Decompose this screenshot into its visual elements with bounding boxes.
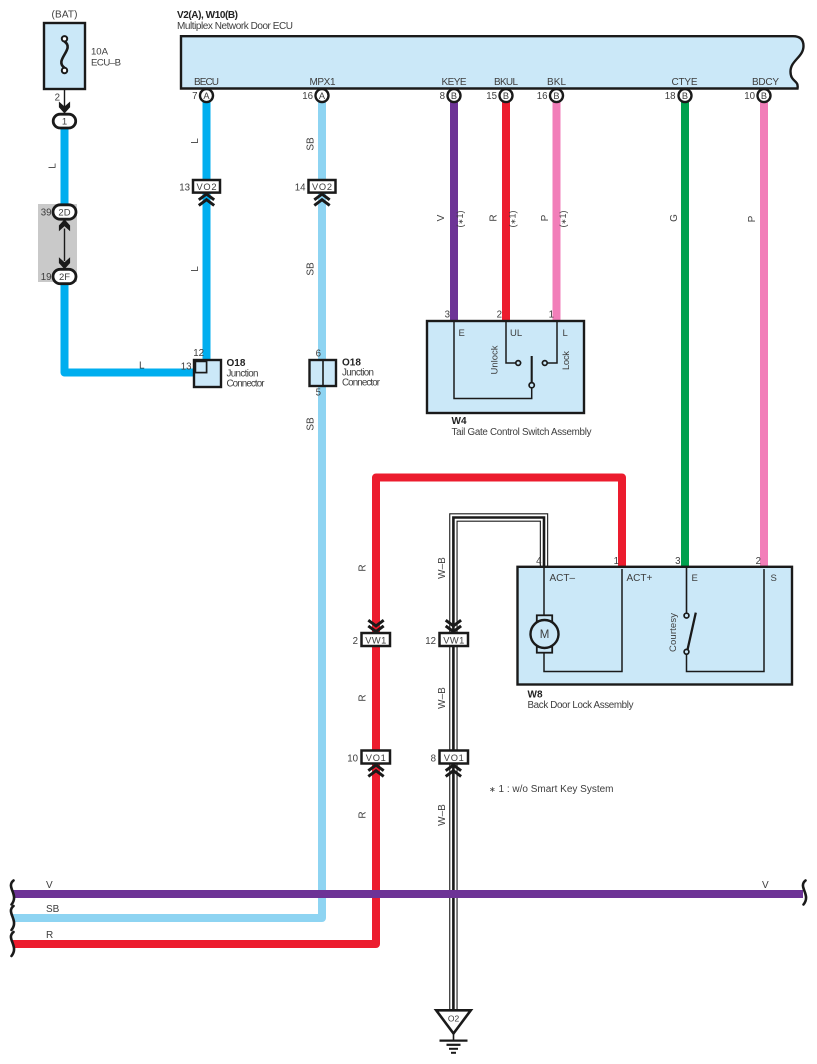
W4 internal wire UL to unlock contact <box>506 322 516 363</box>
ECU box V2(A) W10(B) <box>181 36 804 88</box>
svg-text:1: 1 <box>62 117 67 128</box>
pin 16 connector B BKL <box>537 89 563 102</box>
svg-text:B: B <box>761 91 767 101</box>
wire L from ECU BECU pin <box>203 101 211 361</box>
svg-text:8: 8 <box>440 91 445 102</box>
svg-text:UL: UL <box>510 328 522 339</box>
svg-text:SB: SB <box>306 417 317 431</box>
svg-text:BECU: BECU <box>194 77 219 88</box>
svg-text:W–B: W–B <box>437 557 448 579</box>
W4 internal wire E to switch common <box>454 322 532 399</box>
svg-text:B: B <box>682 91 688 101</box>
wire V from ECU KEYE pin to W4 <box>450 101 458 322</box>
ground O2 <box>436 1010 471 1053</box>
svg-text:VO1: VO1 <box>366 753 386 763</box>
svg-text:P: P <box>540 214 551 221</box>
svg-text:3: 3 <box>445 310 450 321</box>
svg-text:BKL: BKL <box>547 77 566 88</box>
svg-text:VO2: VO2 <box>197 182 217 192</box>
svg-text:18: 18 <box>665 91 676 102</box>
svg-text:V: V <box>762 880 769 891</box>
svg-text:2: 2 <box>353 636 358 647</box>
connector 12 VW1 <box>425 620 468 647</box>
wire R from ECU BKUL pin to W4 <box>502 101 510 322</box>
svg-text:V2(A), W10(B): V2(A), W10(B) <box>177 10 238 21</box>
W4 common contact <box>529 383 534 388</box>
wire G from ECU CTYE pin to W8 <box>681 101 689 568</box>
connector 2 VW1 <box>353 620 390 647</box>
svg-text:(∗1): (∗1) <box>508 210 518 227</box>
svg-text:39: 39 <box>41 208 52 219</box>
connector 2F oval <box>53 269 76 283</box>
brace left SB bus <box>11 906 14 930</box>
svg-text:12: 12 <box>425 636 436 647</box>
svg-text:(BAT): (BAT) <box>52 10 78 21</box>
connector 1 oval <box>53 114 75 128</box>
svg-text:B: B <box>503 91 509 101</box>
svg-text:S: S <box>771 573 777 584</box>
svg-text:V: V <box>436 214 447 221</box>
svg-text:L: L <box>563 328 568 339</box>
svg-text:E: E <box>459 328 465 339</box>
svg-text:2D: 2D <box>58 208 70 219</box>
svg-text:13: 13 <box>181 362 192 373</box>
svg-text:BDCY: BDCY <box>752 77 779 88</box>
svg-text:A: A <box>203 91 210 101</box>
wire fuse to connector 1 with arrowhead <box>59 89 70 114</box>
svg-text:13: 13 <box>179 183 190 194</box>
svg-text:R: R <box>358 694 369 701</box>
connector 2D oval <box>53 205 76 219</box>
svg-text:W–B: W–B <box>437 804 448 826</box>
brace left V bus <box>11 881 14 905</box>
W8 internal wire E to courtesy switch <box>686 568 688 613</box>
svg-text:L: L <box>139 361 145 372</box>
svg-text:5: 5 <box>316 388 321 399</box>
svg-text:6: 6 <box>316 349 321 360</box>
svg-text:(∗1): (∗1) <box>455 210 465 227</box>
svg-text:M: M <box>540 629 550 641</box>
svg-text:VW1: VW1 <box>443 635 464 645</box>
pin 15 connector B BKUL <box>486 89 512 102</box>
svg-text:12: 12 <box>193 348 204 359</box>
pin 10 connector B BDCY <box>744 89 770 102</box>
svg-text:Tail Gate Control Switch Assem: Tail Gate Control Switch Assembly <box>452 427 592 438</box>
W4 unlock contact <box>516 361 521 366</box>
svg-text:1: 1 <box>614 556 619 567</box>
W4 internal wire L to lock contact <box>547 322 557 363</box>
W8 Back Door Lock Assembly box <box>518 567 793 685</box>
svg-text:A: A <box>319 91 326 101</box>
svg-text:19: 19 <box>41 272 52 283</box>
svg-text:Multiplex Network Door ECU: Multiplex Network Door ECU <box>177 21 293 32</box>
connector 8 VO1 <box>431 751 468 777</box>
svg-text:R: R <box>489 214 500 221</box>
label 10A ECU-B <box>91 47 121 69</box>
svg-text:SB: SB <box>306 137 317 151</box>
svg-text:1: 1 <box>549 310 554 321</box>
svg-text:14: 14 <box>295 183 306 194</box>
junction connector O18 left <box>194 360 221 387</box>
svg-text:G: G <box>669 214 680 222</box>
svg-text:SB: SB <box>306 262 317 276</box>
svg-text:Lock: Lock <box>561 351 572 370</box>
svg-text:10: 10 <box>347 754 358 765</box>
bus wire V <box>13 890 803 898</box>
svg-text:10: 10 <box>744 91 755 102</box>
pin 7 connector A BECU <box>192 89 213 102</box>
svg-text:15: 15 <box>486 91 497 102</box>
svg-text:7: 7 <box>192 91 197 102</box>
svg-text:(∗1): (∗1) <box>558 210 568 227</box>
wire SB from ECU MPX1 pin to bus <box>13 101 322 918</box>
svg-text:10A: 10A <box>91 47 109 58</box>
connector block 2D/2F gray box <box>38 204 77 282</box>
svg-text:R: R <box>358 811 369 818</box>
W8 internal wire ACT- to motor <box>543 568 545 615</box>
svg-text:VO2: VO2 <box>312 182 332 192</box>
svg-text:E: E <box>692 573 698 584</box>
arrows between 2D and 2F <box>59 219 70 269</box>
svg-text:O18: O18 <box>227 358 246 369</box>
svg-text:O2: O2 <box>448 1014 460 1024</box>
W4 lock contact <box>542 361 547 366</box>
svg-text:MPX1: MPX1 <box>310 77 336 88</box>
svg-text:ACT–: ACT– <box>550 573 576 584</box>
svg-text:L: L <box>48 163 59 169</box>
brace right V bus <box>803 881 806 905</box>
svg-text:ECU–B: ECU–B <box>91 58 121 69</box>
svg-text:W4: W4 <box>452 416 467 427</box>
junction connector O18 right <box>310 360 337 386</box>
svg-text:B: B <box>451 91 457 101</box>
svg-text:3: 3 <box>675 556 680 567</box>
svg-text:BKUL: BKUL <box>494 77 518 88</box>
W8 internal wire motor to ACT+ <box>544 569 622 672</box>
svg-text:KEYE: KEYE <box>442 77 467 88</box>
pin 8 connector B KEYE <box>440 89 461 102</box>
svg-text:W8: W8 <box>528 690 543 701</box>
svg-text:16: 16 <box>537 91 548 102</box>
svg-text:L: L <box>190 138 201 144</box>
brace left R bus <box>11 932 14 956</box>
svg-text:4: 4 <box>536 556 542 567</box>
svg-text:Connector: Connector <box>342 378 381 389</box>
W4 Tail Gate Control Switch Assembly box <box>427 321 584 413</box>
svg-text:2: 2 <box>756 556 761 567</box>
svg-text:Back Door Lock Assembly: Back Door Lock Assembly <box>528 700 634 711</box>
svg-text:L: L <box>190 266 201 272</box>
svg-text:2F: 2F <box>59 272 70 283</box>
svg-text:CTYE: CTYE <box>672 77 698 88</box>
wire P from ECU BKL pin to W4 <box>553 101 561 322</box>
W8 internal wire courtesy switch to S <box>687 569 765 672</box>
fuse box ECU-B <box>44 23 85 89</box>
fuse symbol <box>61 36 67 73</box>
pin 16 connector A MPX1 <box>302 89 328 102</box>
connector 10 VO1 <box>347 751 390 777</box>
svg-text:R: R <box>46 930 53 941</box>
connector 13 VO2 <box>179 180 220 205</box>
svg-text:R: R <box>358 564 369 571</box>
pin 18 connector B CTYE <box>665 89 692 102</box>
wire W-B from W8 ACT- to ground O2 <box>453 518 544 1010</box>
courtesy switch contacts and lever <box>684 613 696 655</box>
svg-text:B: B <box>553 91 559 101</box>
svg-text:VW1: VW1 <box>365 635 386 645</box>
svg-text:SB: SB <box>46 904 60 915</box>
svg-text:Courtesy: Courtesy <box>668 613 679 652</box>
motor M <box>531 615 559 652</box>
svg-text:ACT+: ACT+ <box>627 573 653 584</box>
wire R main from bus through VO1/VW1 to W8 ACT+ <box>13 478 622 945</box>
svg-text:P: P <box>747 215 758 222</box>
svg-text:Connector: Connector <box>227 379 266 390</box>
connector 14 VO2 <box>295 180 336 205</box>
label O18 Junction Connector right <box>342 358 381 389</box>
wire P from ECU BDCY pin to W8 <box>760 101 768 568</box>
svg-text:VO1: VO1 <box>444 753 464 763</box>
label O18 Junction Connector left <box>227 358 266 390</box>
svg-text:8: 8 <box>431 754 436 765</box>
svg-text:W–B: W–B <box>437 687 448 709</box>
wire L from fuse to junction O18 <box>65 128 197 373</box>
svg-text:∗ 1 : w/o Smart Key System: ∗ 1 : w/o Smart Key System <box>489 784 614 795</box>
svg-text:Unlock: Unlock <box>490 345 501 374</box>
svg-text:V: V <box>46 880 53 891</box>
svg-text:16: 16 <box>302 91 313 102</box>
W4 switch lever <box>531 356 533 382</box>
svg-text:2: 2 <box>497 310 502 321</box>
